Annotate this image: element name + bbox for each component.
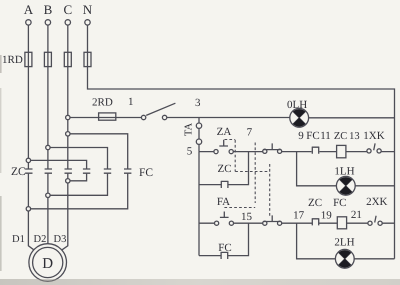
svg-text:2LH: 2LH <box>334 237 354 249</box>
svg-text:5: 5 <box>187 146 193 158</box>
svg-text:21: 21 <box>351 209 362 221</box>
node B reverse feeder <box>46 145 50 149</box>
fuse 2RD <box>99 113 116 120</box>
phase terminal C <box>63 2 72 25</box>
svg-text:ZC: ZC <box>217 163 231 175</box>
FA NC button contact (7-9) <box>263 143 282 153</box>
wire lamp 0LH to right rail <box>309 117 395 119</box>
wire B feeder to FC column <box>50 148 107 196</box>
TA terminal upper <box>196 123 201 128</box>
svg-text:2RD: 2RD <box>92 97 113 109</box>
lamp 0LH <box>290 108 309 127</box>
svg-text:B: B <box>44 2 53 17</box>
svg-text:1LH: 1LH <box>334 166 354 178</box>
fuse C <box>64 52 71 66</box>
row2 wire segments <box>199 222 395 224</box>
svg-text:19: 19 <box>321 210 333 222</box>
svg-text:ZC: ZC <box>334 131 347 142</box>
FC NC interlock contact <box>312 147 319 154</box>
svg-text:7: 7 <box>247 127 253 139</box>
ZC main contact phase C <box>65 169 72 173</box>
coil FC <box>337 217 346 229</box>
svg-text:ZC: ZC <box>308 197 322 209</box>
scan artifact: bottom shadow band <box>0 279 400 285</box>
wire C feeder to FC column <box>31 134 128 209</box>
svg-text:D3: D3 <box>54 234 67 245</box>
fuse B <box>44 52 51 66</box>
svg-text:9: 9 <box>298 130 304 142</box>
row1 wire segments <box>199 151 395 153</box>
FC main contact 1 <box>83 169 90 173</box>
node C reverse feeder <box>66 132 70 136</box>
control wire node3 to lamp <box>167 117 290 119</box>
node A reverse feeder <box>26 158 30 162</box>
TA terminal lower <box>196 139 201 144</box>
svg-text:FA: FA <box>217 196 230 208</box>
svg-text:ZA: ZA <box>217 126 232 138</box>
ZC self-hold branch wire <box>199 152 249 185</box>
FC main contact 3 <box>124 169 131 173</box>
motor M inner circle <box>33 247 63 277</box>
wire phase C vertical <box>59 25 67 252</box>
fuse N <box>84 52 91 66</box>
switch pivot <box>141 115 145 119</box>
svg-text:D: D <box>42 256 53 272</box>
switch right contact <box>162 115 166 119</box>
ZC NC interlock contact <box>312 218 319 225</box>
svg-text:1RD: 1RD <box>2 54 23 66</box>
FC self-hold branch wire <box>199 223 249 255</box>
svg-text:C: C <box>63 2 72 17</box>
ZC main contact phase A <box>25 169 32 173</box>
node C lower <box>66 179 70 183</box>
phase terminal N <box>83 2 93 25</box>
svg-text:1XK: 1XK <box>363 130 384 142</box>
svg-text:D1: D1 <box>12 234 25 245</box>
button ZA <box>214 140 233 154</box>
ZC main contact phase B <box>45 169 52 173</box>
wire N down and top bus to right rail <box>88 25 395 117</box>
TA stem wire <box>198 118 200 152</box>
coil ZC <box>337 145 346 157</box>
fuse A <box>25 52 32 66</box>
right rail N <box>394 118 396 259</box>
phase terminal B <box>44 2 53 25</box>
svg-text:N: N <box>83 2 93 17</box>
svg-text:3: 3 <box>195 97 201 109</box>
control wire from C tap through fuse to switch <box>70 117 141 119</box>
wire phase B vertical <box>47 25 49 244</box>
FC main contact 2 <box>104 169 111 173</box>
limit switch 1XK <box>367 143 381 153</box>
left control rail <box>198 152 200 256</box>
ZA NC button contact (15-17) <box>263 215 282 225</box>
lamp 2LH <box>335 249 354 268</box>
wire to lamp 1LH <box>297 152 395 186</box>
svg-text:FC: FC <box>333 197 346 209</box>
svg-text:TA: TA <box>184 123 195 137</box>
wire A feeder to FC column <box>31 160 87 180</box>
ZC self-hold NO contact <box>221 181 229 188</box>
svg-text:11: 11 <box>320 130 331 142</box>
wire to lamp 2LH <box>297 223 395 259</box>
svg-text:FC: FC <box>139 167 153 179</box>
motor M outer circle <box>29 244 67 282</box>
svg-text:ZC: ZC <box>11 166 26 178</box>
node B lower <box>46 193 50 197</box>
svg-text:1: 1 <box>128 96 134 108</box>
svg-text:2XK: 2XK <box>366 196 387 208</box>
lamp 1LH <box>336 176 355 195</box>
svg-text:FC: FC <box>306 130 319 142</box>
phase terminal A <box>24 2 34 25</box>
node C control tap <box>66 115 70 119</box>
button FA <box>215 212 234 226</box>
svg-text:17: 17 <box>293 210 305 222</box>
switch blade <box>146 103 175 115</box>
svg-text:A: A <box>24 2 34 17</box>
scan artifact: left edge streaks <box>0 55 2 73</box>
wire phase A vertical <box>28 25 36 252</box>
svg-text:15: 15 <box>241 211 253 223</box>
svg-text:13: 13 <box>349 131 360 142</box>
FC self-hold NO contact <box>221 252 229 259</box>
limit switch 2XK <box>368 216 382 226</box>
node A lower <box>26 207 30 211</box>
mechanical linkage dashed <box>224 140 269 217</box>
